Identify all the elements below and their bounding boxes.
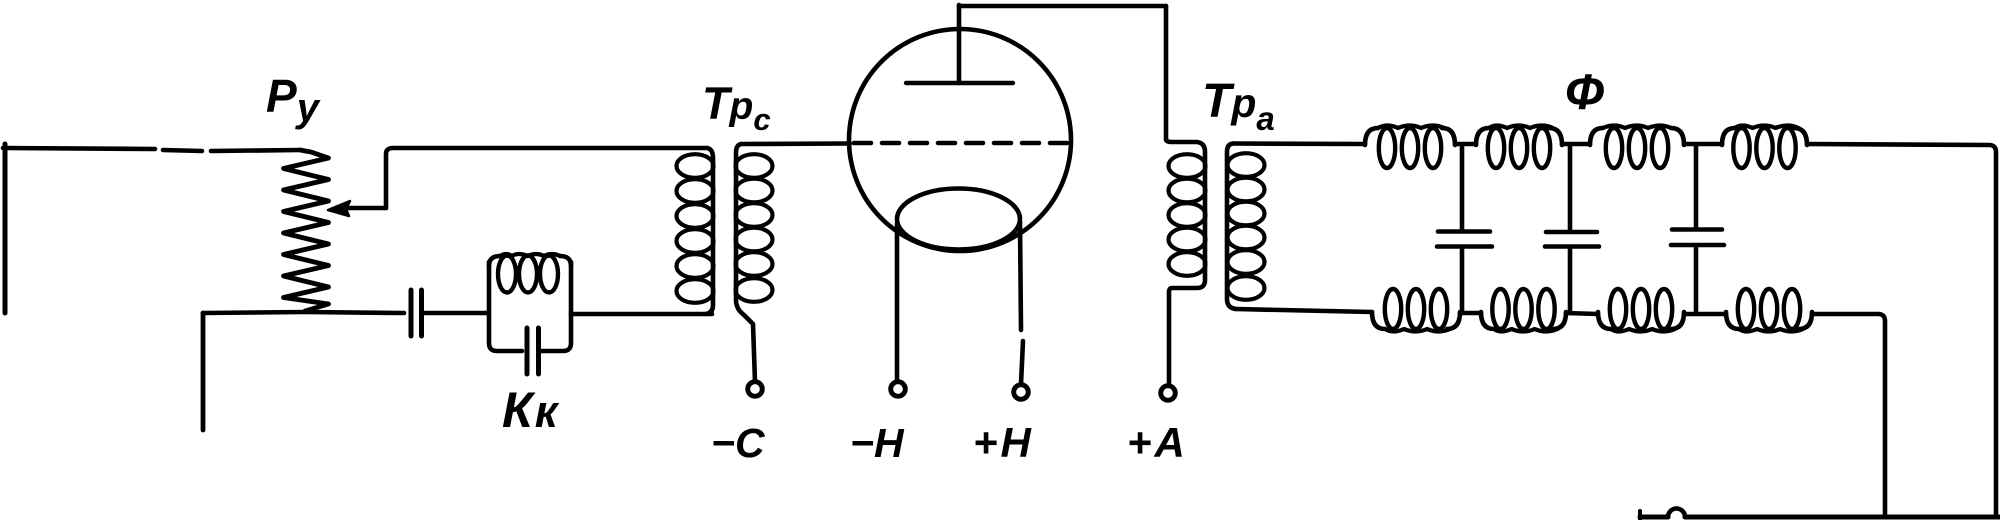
svg-text:Кк: Кк	[502, 382, 560, 438]
svg-text:−С: −С	[711, 420, 766, 466]
svg-text:+Н: +Н	[973, 419, 1034, 466]
svg-text:−Н: −Н	[850, 420, 905, 466]
svg-text:+А: +А	[1127, 419, 1188, 466]
svg-text:Ф: Ф	[1565, 64, 1604, 120]
